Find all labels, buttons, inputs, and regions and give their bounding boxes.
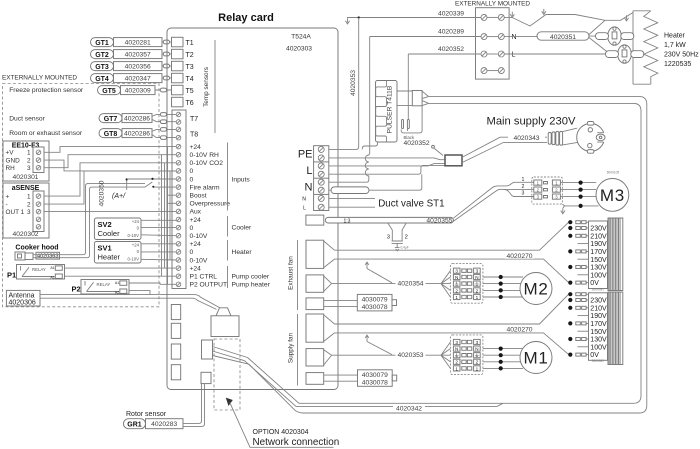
cable sleeve on N wire	[331, 187, 369, 194]
svg-text:4020309: 4020309	[125, 88, 151, 95]
svg-text:Fire alarm: Fire alarm	[190, 184, 221, 191]
svg-text:A1: A1	[115, 281, 119, 285]
svg-text:4020286: 4020286	[124, 131, 150, 138]
motor M2	[520, 273, 552, 305]
svg-text:P2 OUTPUT: P2 OUTPUT	[190, 282, 228, 289]
terminal T4	[172, 73, 184, 83]
Cooler bracket	[227, 216, 229, 237]
svg-text:190V: 190V	[590, 313, 607, 320]
terminal T6	[172, 97, 184, 107]
svg-text:+24: +24	[132, 219, 140, 224]
svg-text:T5: T5	[186, 88, 194, 95]
wire L row4 to junction	[329, 165, 445, 174]
svg-text:M1: M1	[523, 349, 548, 368]
svg-text:OUT 1: OUT 1	[6, 209, 25, 216]
svg-text:P1 CTRL: P1 CTRL	[190, 274, 218, 281]
svg-text:N: N	[475, 347, 478, 352]
sensor GR1	[124, 419, 184, 429]
cooker hood cable to sensor 4020350	[33, 184, 145, 255]
svg-text:Inputs: Inputs	[232, 177, 251, 184]
svg-text:N: N	[302, 197, 306, 203]
svg-text:3: 3	[455, 340, 458, 345]
ground symbol on wire 4020339	[345, 18, 349, 24]
sensor GT4	[91, 74, 163, 83]
svg-text:N: N	[455, 347, 458, 352]
svg-text:0-10V: 0-10V	[190, 233, 208, 240]
terminal T3	[172, 61, 184, 71]
sensor GT3	[91, 62, 163, 71]
svg-text:150V: 150V	[590, 329, 607, 336]
wire PE row2 to junction	[329, 158, 445, 160]
svg-text:4020356: 4020356	[125, 64, 151, 71]
svg-text:+24: +24	[132, 242, 140, 247]
svg-text:4020350: 4020350	[99, 180, 106, 206]
screw terminals column	[176, 112, 181, 286]
module lower connector	[201, 372, 211, 383]
duct valve stub N	[329, 197, 375, 199]
BOTTOM-SECTION	[201, 308, 425, 448]
svg-text:3: 3	[476, 340, 479, 345]
svg-text:0V: 0V	[590, 280, 599, 287]
svg-text:1:3: 1:3	[344, 218, 351, 224]
control cable 4020354	[332, 271, 451, 297]
svg-text:0: 0	[190, 168, 194, 175]
svg-text:4020355: 4020355	[426, 217, 452, 224]
svg-text:Antenna: Antenna	[9, 292, 35, 299]
svg-text:N: N	[475, 275, 478, 280]
svg-text:N: N	[455, 275, 458, 280]
svg-text:4020342: 4020342	[396, 406, 422, 413]
svg-text:N: N	[512, 34, 517, 41]
svg-text:2: 2	[455, 288, 458, 293]
terminal T5	[172, 85, 184, 95]
svg-text:+24: +24	[190, 144, 202, 151]
antenna box	[6, 290, 40, 306]
cable 4020351	[504, 36, 537, 38]
exhaust fan feed wire to top tap	[335, 223, 569, 251]
svg-text:GT7: GT7	[104, 116, 118, 123]
svg-text:0-10V: 0-10V	[190, 257, 208, 264]
network module box	[211, 316, 239, 337]
svg-text:0,4µF: 0,4µF	[401, 246, 409, 250]
terminal strip outline	[172, 110, 186, 289]
svg-text:Freeze protection sensor: Freeze protection sensor	[9, 87, 84, 94]
wire GT5-T5	[155, 89, 172, 91]
CARD-SECTION	[167, 12, 338, 390]
svg-text:T1: T1	[186, 40, 194, 47]
svg-text:4020353: 4020353	[397, 352, 423, 359]
svg-text:4020347: 4020347	[125, 76, 151, 83]
svg-text:OPTION 4020304: OPTION 4020304	[253, 429, 309, 436]
svg-text:GT2: GT2	[95, 52, 109, 59]
svg-text:T7: T7	[190, 116, 198, 123]
svg-text:3: 3	[27, 165, 31, 172]
svg-text:210V: 210V	[590, 305, 607, 312]
svg-text:+24: +24	[190, 217, 202, 224]
svg-text:4020303: 4020303	[286, 46, 312, 53]
P1 wires	[65, 268, 177, 276]
svg-text:Overpressure: Overpressure	[190, 201, 231, 208]
svg-text:4020270: 4020270	[506, 253, 532, 260]
sensor GT8	[99, 129, 152, 138]
pulser output connector	[412, 91, 422, 106]
svg-text:EXTERNALLY MOUNTED: EXTERNALLY MOUNTED	[2, 75, 77, 82]
externally mounted dashed enclosure	[3, 84, 160, 307]
svg-text:GT8: GT8	[104, 131, 118, 138]
wires GT7 to strip	[152, 114, 177, 121]
duct valve cable end box	[306, 215, 324, 225]
inner loop wire A	[248, 103, 642, 403]
svg-text:L: L	[303, 205, 306, 211]
SV2 wires	[141, 220, 176, 235]
svg-text:T3: T3	[186, 64, 194, 71]
svg-text:4020353: 4020353	[350, 70, 357, 96]
wire L row3 to junction	[329, 164, 445, 166]
label 4020342	[393, 404, 425, 411]
svg-text:+V: +V	[6, 150, 15, 157]
capacitor 0,4uF	[392, 241, 403, 248]
svg-text:L: L	[512, 52, 516, 59]
svg-text:230V 50Hz: 230V 50Hz	[664, 52, 699, 59]
svg-text:4020281: 4020281	[125, 40, 151, 47]
svg-text:0: 0	[190, 249, 194, 256]
svg-text:0-10V RH: 0-10V RH	[190, 152, 220, 159]
svg-text:6000105: 6000105	[607, 171, 620, 175]
svg-text:210V: 210V	[590, 233, 607, 240]
relay card T524A board outline	[167, 28, 338, 390]
svg-text:-: -	[6, 201, 8, 208]
wires EE10 to strip	[44, 147, 176, 171]
svg-text:130V: 130V	[590, 337, 607, 344]
svg-text:230V: 230V	[590, 298, 607, 305]
svg-text:0-10V: 0-10V	[128, 257, 140, 262]
svg-text:T524A: T524A	[291, 34, 311, 41]
svg-text:1: 1	[27, 150, 31, 157]
svg-text:4030078: 4030078	[362, 380, 388, 387]
P2 wires	[129, 283, 176, 295]
PE L N terminal block	[314, 146, 329, 211]
pulser wire down	[362, 142, 377, 149]
sensor GT1	[91, 38, 163, 47]
svg-text:1220535: 1220535	[664, 61, 691, 68]
Exhaust fan bracket	[297, 240, 299, 310]
svg-text:130V: 130V	[590, 265, 607, 272]
svg-text:10: 10	[569, 250, 573, 254]
svg-text:Heater: Heater	[232, 249, 253, 256]
svg-text:Heater: Heater	[98, 253, 121, 262]
svg-text:A2: A2	[50, 275, 54, 279]
svg-text:RELAY: RELAY	[97, 282, 111, 287]
svg-text:Pump cooler: Pump cooler	[232, 274, 270, 281]
TOPRIGHT-SECTION	[329, 1, 699, 183]
supply fan control connector	[306, 349, 324, 366]
OPTION 4020304 dashed box	[214, 339, 240, 410]
wire GT2-T2	[162, 53, 172, 55]
terminal T2	[172, 49, 184, 59]
input row labels	[190, 144, 231, 289]
svg-text:PULSER T411B: PULSER T411B	[386, 85, 393, 133]
heater terminal box	[476, 8, 510, 79]
mains cable 4020343	[462, 137, 547, 162]
svg-text:4020306: 4020306	[9, 300, 36, 307]
svg-text:T2: T2	[186, 52, 194, 59]
supply fan main connector	[306, 314, 324, 342]
svg-text:2: 2	[476, 360, 479, 365]
capacitor wires	[388, 223, 406, 241]
control cable 4020353	[332, 342, 451, 368]
svg-text:4020302: 4020302	[12, 231, 38, 238]
wire end beads	[402, 120, 404, 129]
Inputs bracket	[227, 143, 229, 211]
svg-text:GT5: GT5	[102, 88, 116, 95]
svg-text:4020352: 4020352	[404, 140, 430, 147]
svg-text:230V: 230V	[590, 226, 607, 233]
svg-text:4020339: 4020339	[438, 11, 464, 18]
exhaust fan control connector	[306, 275, 324, 292]
supply fan feed wire to top tap	[335, 295, 569, 324]
svg-text:0-10V CO2: 0-10V CO2	[190, 160, 224, 167]
wire N row6	[329, 174, 422, 190]
svg-text:RELAY: RELAY	[32, 267, 46, 272]
module side connector	[202, 340, 213, 359]
svg-text:170V: 170V	[590, 321, 607, 328]
vertical wire 4020352 to pulser	[407, 54, 409, 119]
shield tap (exhaust)	[365, 262, 369, 268]
exhaust fan main connector	[306, 240, 324, 268]
svg-text:P2: P2	[72, 285, 81, 294]
svg-text:L: L	[306, 165, 312, 177]
arrow to option box	[226, 398, 233, 406]
supply fan sensor connector	[306, 373, 324, 385]
svg-text:Main supply 230V: Main supply 230V	[487, 116, 576, 128]
wires GT8 to strip	[152, 129, 177, 137]
svg-text:T8: T8	[190, 132, 198, 139]
svg-text:9500087: 9500087	[592, 287, 605, 291]
svg-text:1: 1	[455, 295, 458, 300]
svg-text:RH: RH	[6, 165, 16, 172]
svg-text:100V: 100V	[590, 272, 607, 279]
svg-text:2: 2	[476, 288, 479, 293]
ground symbol right of box	[510, 12, 514, 18]
svg-text:+: +	[6, 194, 10, 201]
cooker hood cable number 4020363	[36, 252, 60, 259]
svg-text:4020343: 4020343	[513, 135, 539, 142]
voltage ladder M2 taps	[568, 218, 623, 291]
schuko plug	[577, 122, 607, 154]
svg-text:+24: +24	[190, 265, 202, 272]
L wire to thermostat F2	[504, 53, 606, 55]
svg-text:SV2: SV2	[98, 220, 112, 229]
rotor sensor cable	[183, 384, 205, 427]
svg-text:0-10V: 0-10V	[128, 233, 140, 238]
svg-text:1: 1	[476, 366, 479, 371]
svg-text:PE: PE	[298, 149, 313, 161]
M3 connector	[532, 177, 563, 204]
wire GT3-T3	[162, 65, 172, 67]
svg-text:4030078: 4030078	[362, 304, 388, 311]
svg-text:Cooler: Cooler	[98, 229, 121, 238]
svg-text:+24: +24	[190, 241, 202, 248]
exhaust fan sensor connector	[306, 298, 324, 310]
svg-text:190V: 190V	[590, 241, 607, 248]
temp sensors bracket	[214, 40, 216, 133]
humidity sensor EE10-F3 box	[3, 141, 49, 181]
wire GT4-T4	[162, 77, 172, 79]
svg-text:T6: T6	[186, 100, 194, 107]
svg-text:3: 3	[476, 269, 479, 274]
svg-text:0: 0	[190, 176, 194, 183]
sensor GT7	[99, 114, 152, 123]
svg-text:0: 0	[137, 226, 140, 231]
svg-text:2: 2	[27, 201, 31, 208]
switch contact	[145, 182, 176, 187]
svg-text:150V: 150V	[590, 257, 607, 264]
svg-text:Cooker hood: Cooker hood	[15, 245, 58, 252]
svg-text:1,7 kW: 1,7 kW	[664, 42, 686, 49]
svg-text:M3: M3	[600, 186, 625, 205]
svg-text:4020283: 4020283	[151, 421, 177, 428]
cable label 4020270 (exhaust)	[505, 252, 535, 259]
supply fan feed wire to 0V tap	[335, 333, 569, 354]
valve SV2 cooler box	[94, 218, 141, 240]
svg-text:4030079: 4030079	[362, 297, 388, 304]
voltage ladder M1 taps	[568, 292, 623, 365]
svg-text:3: 3	[27, 209, 31, 216]
earth wire to heater frame	[504, 13, 633, 27]
svg-text:Duct valve ST1: Duct valve ST1	[378, 199, 444, 210]
svg-text:1: 1	[455, 366, 458, 371]
Pump bracket	[227, 266, 229, 288]
svg-text:3: 3	[455, 269, 458, 274]
svg-text:(A+/: (A+/	[112, 193, 126, 200]
svg-text:SV1: SV1	[98, 244, 112, 253]
svg-text:Exhaust fan: Exhaust fan	[288, 256, 295, 290]
inner loop wire B	[245, 361, 504, 407]
vertical wire 4020353	[358, 16, 360, 18]
svg-text:GT4: GT4	[95, 76, 109, 83]
CO2 sensor aSENSE box	[3, 183, 49, 238]
svg-text:4020289: 4020289	[438, 29, 464, 36]
cooker hood connector symbol	[15, 252, 25, 260]
svg-text:100V: 100V	[590, 344, 607, 351]
sensor GT5	[98, 86, 156, 95]
outer earth loop wire	[329, 18, 359, 150]
heater element zigzag	[644, 11, 658, 84]
svg-text:Cooler: Cooler	[232, 225, 252, 232]
M3 wires with markers	[560, 183, 596, 197]
svg-text:4020301: 4020301	[12, 174, 38, 181]
outer loop wire	[249, 96, 647, 413]
svg-text:EE10-F3: EE10-F3	[12, 143, 40, 150]
svg-text:3: 3	[522, 191, 525, 197]
LEFT-SECTION	[2, 38, 220, 429]
wires from cable tip	[589, 20, 608, 52]
svg-text:Pump heater: Pump heater	[232, 282, 271, 289]
svg-text:4020357: 4020357	[125, 52, 151, 59]
thermostat F2	[606, 45, 644, 63]
svg-text:4020270: 4020270	[506, 327, 532, 334]
svg-text:2: 2	[522, 184, 525, 190]
svg-text:Supply fan: Supply fan	[288, 332, 295, 363]
M1 motor wires with markers	[483, 349, 523, 369]
duct valve cable 4020355	[325, 217, 453, 223]
card bottom edge connectors	[171, 305, 180, 320]
svg-text:GR1: GR1	[127, 421, 142, 428]
svg-text:Room or exhaust sensor: Room or exhaust sensor	[9, 130, 83, 137]
motor M1	[520, 342, 552, 374]
svg-text:Duct sensor: Duct sensor	[9, 116, 45, 123]
wire GT1-T1	[162, 41, 172, 43]
duct valve stub L	[329, 206, 375, 208]
svg-text:P1: P1	[7, 271, 16, 280]
svg-text:3: 3	[387, 234, 390, 240]
svg-text:GT3: GT3	[95, 64, 109, 71]
svg-text:170V: 170V	[590, 249, 607, 256]
svg-text:10: 10	[569, 322, 573, 326]
exhaust fan feed wire to 0V tap	[335, 259, 569, 282]
svg-text:N: N	[305, 182, 313, 194]
svg-text:GT1: GT1	[95, 40, 109, 47]
svg-text:GND: GND	[6, 157, 21, 164]
MOTORS-SECTION	[288, 218, 623, 387]
svg-text:Aux: Aux	[190, 209, 202, 216]
cable links into option module	[213, 347, 250, 365]
vertical wire 4020289	[329, 37, 370, 183]
svg-text:1: 1	[476, 295, 479, 300]
wiring bus verticals	[162, 147, 177, 285]
valve SV1 heater box	[94, 242, 141, 264]
svg-text:Temp sensors: Temp sensors	[203, 67, 210, 107]
svg-text:Rotor sensor: Rotor sensor	[126, 411, 167, 418]
svg-text:4030079: 4030079	[362, 372, 388, 379]
svg-text:1: 1	[522, 177, 525, 183]
connector M2 plug	[450, 264, 483, 304]
heater frame	[633, 11, 651, 84]
svg-text:EXTERNALLY MOUNTED: EXTERNALLY MOUNTED	[455, 1, 530, 8]
svg-text:Boost: Boost	[190, 193, 207, 200]
exhaust fan sensor label box	[357, 294, 392, 311]
svg-text:2: 2	[405, 234, 408, 240]
svg-text:Heater: Heater	[664, 33, 686, 40]
sensor GT2	[91, 50, 163, 59]
svg-text:2: 2	[27, 157, 31, 164]
svg-text:1: 1	[27, 194, 31, 201]
fan wires to M3 connector	[453, 182, 533, 218]
thermostat F1	[596, 27, 634, 45]
svg-text:0: 0	[190, 225, 194, 232]
svg-text:T4: T4	[186, 76, 194, 83]
pulser T411B	[376, 81, 398, 143]
SV1 wires	[141, 244, 176, 260]
svg-text:M2: M2	[523, 280, 548, 299]
motor M3	[596, 179, 629, 212]
svg-text:4020351: 4020351	[550, 34, 576, 41]
Heater bracket	[227, 240, 229, 261]
SUPPLY-SECTION	[245, 18, 647, 414]
svg-text:Network connection: Network connection	[253, 437, 340, 448]
svg-text:4020352: 4020352	[438, 46, 464, 53]
Supply fan bracket	[297, 314, 299, 386]
earth pin	[432, 145, 435, 148]
svg-text:A1: A1	[50, 266, 54, 270]
cable strain relief	[548, 132, 551, 144]
svg-text:4020286: 4020286	[124, 116, 150, 123]
shield tap (supply)	[365, 335, 369, 341]
supply fan sensor label box	[358, 370, 393, 387]
M2 motor wires with markers	[483, 277, 523, 297]
svg-text:0: 0	[137, 249, 140, 254]
terminal T1	[172, 37, 184, 47]
